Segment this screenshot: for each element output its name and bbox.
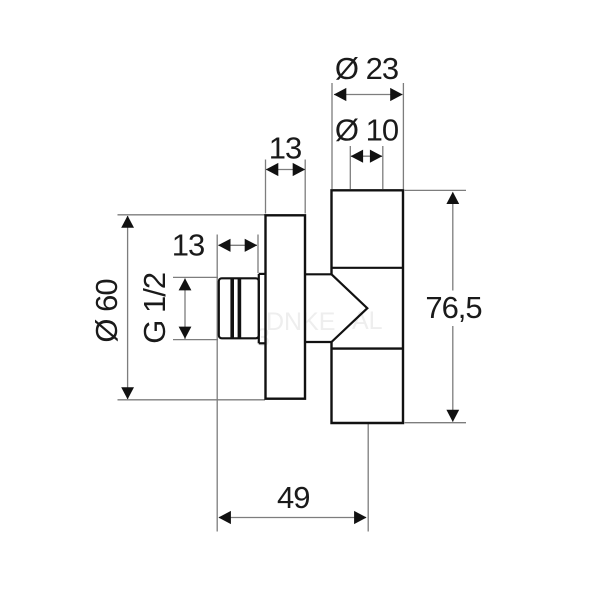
- extension line 76,5 top: [405, 189, 467, 191]
- svg-text:DNKE: DNKE: [266, 308, 335, 336]
- connector top: [305, 273, 332, 275]
- extension line G1/2 bottom: [173, 339, 218, 341]
- svg-text:Ø 10: Ø 10: [335, 113, 399, 148]
- extension line flange-13 left: [265, 160, 267, 214]
- extension line flange-13 right: [304, 160, 306, 214]
- flange: [266, 215, 306, 398]
- arrow G1/2 down: [179, 327, 192, 339]
- connector bottom: [305, 341, 332, 343]
- spigot thread body: [219, 278, 259, 338]
- thread bar 1: [230, 278, 234, 338]
- svg-text:13: 13: [172, 228, 204, 263]
- extension line G1/2 top: [173, 276, 218, 278]
- dimension line Ø60: [127, 216, 129, 399]
- svg-text:49: 49: [277, 480, 309, 515]
- arrow Ø60 up: [121, 216, 134, 228]
- svg-text:AL: AL: [352, 307, 383, 335]
- body section line top: [332, 267, 404, 269]
- arrow Ø23 left: [334, 88, 347, 101]
- thick part outlines: [219, 190, 403, 423]
- arrow flange-13 left: [266, 163, 279, 176]
- extension line 76,5 bottom: [405, 422, 467, 424]
- extension line Ø10 right: [382, 146, 384, 189]
- svg-text:13: 13: [269, 131, 301, 166]
- extension line Ø10 left: [349, 146, 351, 189]
- dimension line Ø23: [334, 94, 403, 96]
- dimension texts: [89, 51, 482, 515]
- extension line spigot-13 right: [257, 235, 259, 274]
- watermark fragments: [256, 307, 383, 352]
- arrow spigot-13 left: [218, 239, 231, 252]
- dimension arrowheads: [121, 88, 459, 524]
- arrow 49 right: [354, 511, 367, 524]
- extension line Ø60 top: [118, 214, 266, 216]
- thread bar 2: [238, 278, 242, 338]
- arrow 76,5 up: [446, 192, 459, 204]
- arrow G1/2 up: [179, 278, 192, 290]
- arrow flange-13 right: [293, 163, 306, 176]
- dimension line 76,5 lower segment: [452, 326, 454, 422]
- extension line Ø23 right: [402, 83, 404, 189]
- dimension line flange-13: [266, 169, 305, 171]
- dimension line spigot-13: [219, 244, 258, 246]
- thin extension and dimension lines: [118, 83, 467, 532]
- chevron cone: [332, 274, 368, 342]
- arrow 49 left: [218, 511, 231, 524]
- arrow Ø23 right: [390, 88, 403, 101]
- arrow Ø10 right: [370, 150, 383, 163]
- extension line Ø60 bottom: [118, 399, 266, 401]
- dimension line G1/2: [184, 279, 186, 340]
- dimension line Ø10: [351, 155, 382, 157]
- svg-text:Ø 60: Ø 60: [89, 279, 124, 343]
- collar bottom: [259, 342, 266, 344]
- dimension line 76,5 upper segment: [452, 193, 454, 291]
- body section line bottom: [332, 347, 404, 349]
- svg-text:76,5: 76,5: [425, 290, 481, 325]
- body outline: [332, 190, 404, 423]
- arrow 76,5 down: [446, 410, 459, 422]
- dimension line 49: [219, 517, 366, 519]
- extension line Ø23 left: [331, 83, 333, 189]
- collar vertical: [258, 274, 260, 343]
- collar top: [259, 273, 266, 275]
- arrow Ø10 left: [351, 150, 364, 163]
- svg-text:Ø 23: Ø 23: [335, 51, 398, 86]
- extension line long left (13 / 49): [216, 235, 218, 532]
- arrow spigot-13 right: [245, 239, 258, 252]
- extension line 49 right / body centerline: [367, 424, 369, 532]
- svg-text:G 1/2: G 1/2: [137, 273, 172, 344]
- arrow Ø60 down: [121, 387, 134, 399]
